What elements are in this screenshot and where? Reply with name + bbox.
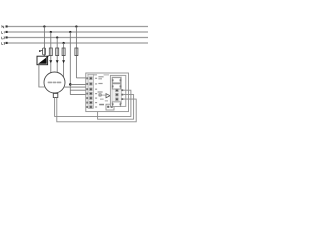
right terminal strip band	[112, 77, 122, 104]
thermocouple wire a	[55, 90, 131, 116]
sub-box label smudge	[105, 100, 108, 101]
wire v1 down	[75, 27, 77, 78]
node dot L1 tap a	[50, 31, 52, 33]
relay contact square 2	[112, 84, 121, 89]
fuse F4	[75, 48, 78, 56]
inner option rect	[110, 75, 125, 106]
node junction on v2	[69, 83, 72, 86]
bus line L2	[6, 36, 149, 38]
dimmer / SSR U1	[37, 56, 49, 65]
node dot N tap	[43, 25, 45, 27]
fuse F0 with release lever	[39, 48, 46, 55]
relay contact square 3	[112, 102, 121, 107]
wire heater right to pin 3	[64, 86, 89, 88]
terminal r1	[115, 89, 123, 92]
terminal 5	[86, 97, 92, 100]
wire phase b	[56, 38, 58, 73]
bus line L3	[6, 42, 149, 44]
label L1	[2, 31, 4, 33]
arrow into load c	[62, 60, 65, 63]
wire N tap down to dimmer	[43, 27, 45, 57]
thermocouple wire b	[57, 98, 136, 122]
wire phase a	[50, 32, 52, 73]
wire v2 branch to pin 2	[70, 83, 88, 85]
thermocouple connector below heater	[53, 93, 58, 98]
terminal 4	[86, 92, 92, 95]
node dot L3 tap c	[62, 42, 64, 44]
terminal r2	[115, 93, 123, 96]
terminal 6	[86, 101, 92, 104]
controller header label smudge	[87, 74, 97, 75]
terminal r3	[115, 98, 123, 101]
internal sensor box	[99, 94, 101, 96]
label N	[2, 26, 4, 28]
node dot N tap v1	[75, 25, 77, 27]
heater load circle	[44, 72, 65, 93]
wire v2 bottom to pin 4	[70, 94, 88, 96]
label MAINS	[99, 104, 104, 106]
label L3	[2, 42, 5, 44]
wire phase c	[63, 43, 65, 77]
wire dimmer output to heater	[39, 65, 45, 87]
pin label smudges	[95, 78, 97, 108]
node dot L2 tap b	[56, 36, 58, 38]
terminal 1	[86, 77, 92, 80]
controller block outline	[86, 73, 129, 112]
internal mark below	[100, 99, 104, 100]
internal label AI	[98, 83, 102, 84]
bottom sub-box	[106, 104, 114, 110]
wire v2 branch to pin 3	[70, 89, 88, 91]
terminal 7	[86, 105, 92, 108]
bus line L1	[6, 31, 149, 33]
internal triangle symbol	[106, 94, 110, 98]
internal label cluster top	[98, 76, 103, 77]
arrow into load a	[49, 60, 52, 63]
internal label SSR	[98, 91, 103, 92]
arrow into load b	[56, 60, 59, 63]
terminal 2	[86, 82, 92, 85]
wire v1 to pin 1	[76, 77, 88, 79]
wire v2 down	[69, 32, 71, 95]
node dot L1 tap v2	[69, 31, 71, 33]
current sense loop wire	[98, 95, 134, 120]
fuse F3	[62, 48, 65, 56]
fuse F2	[56, 48, 59, 56]
terminal 3	[86, 88, 92, 91]
fuse F1	[49, 48, 52, 56]
label L2	[2, 37, 5, 39]
internal wire to triangle	[101, 94, 106, 96]
relay contact square 1	[112, 78, 121, 83]
left terminal strip	[88, 74, 93, 108]
bus line N	[6, 25, 149, 27]
